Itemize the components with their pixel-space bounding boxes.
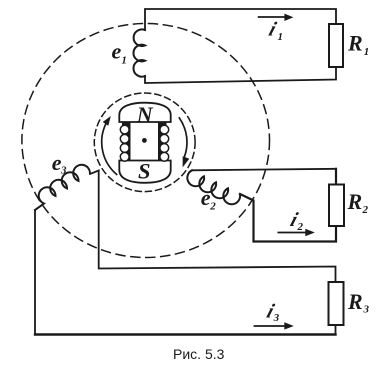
current arrow i3 [254, 325, 285, 327]
wire circuit-3 right vertical [90, 171, 336, 335]
rotation arc right [179, 118, 187, 157]
big dashed circle (stator flux path) [22, 24, 270, 258]
svg-text:N: N [136, 102, 154, 127]
svg-text:R: R [347, 289, 363, 314]
svg-text:1: 1 [278, 31, 284, 43]
svg-text:Рис. 5.3: Рис. 5.3 [173, 346, 225, 362]
rotation arrowhead left [103, 116, 111, 126]
magnet pole piece N (top cap) [119, 103, 170, 122]
svg-text:1: 1 [121, 54, 127, 66]
svg-text:R: R [347, 189, 363, 214]
small dashed circle (rotor boundary) [94, 93, 195, 192]
svg-text:3: 3 [273, 312, 280, 324]
rotor core bar right [158, 122, 167, 162]
magnet pole piece S (bottom cap) [119, 161, 170, 183]
resistor R2 [329, 185, 344, 227]
wire circuit-1 loop (top rectangle) [145, 9, 336, 83]
rotation arrowhead right [183, 156, 190, 167]
rotor core bar left [122, 122, 131, 162]
coil e2 [187, 170, 240, 204]
rotor axis dot [142, 138, 147, 143]
resistor R3 [329, 282, 344, 325]
current arrow i1 [259, 16, 287, 18]
rotor winding turns right [160, 125, 169, 161]
wire circuit-2 right/bottom/left [240, 169, 336, 242]
svg-text:3: 3 [363, 304, 370, 316]
svg-text:2: 2 [209, 201, 216, 213]
current arrow i2 [278, 232, 306, 234]
wire circuit-3 bottom [35, 333, 336, 335]
svg-text:S: S [138, 159, 151, 184]
rotor winding turns left [120, 125, 129, 161]
rotation arc left [102, 124, 117, 175]
resistor R1 [329, 24, 343, 67]
svg-text:2: 2 [362, 204, 369, 216]
svg-text:1: 1 [364, 46, 370, 58]
svg-text:2: 2 [297, 221, 304, 233]
svg-text:3: 3 [60, 165, 67, 177]
svg-text:e: e [112, 39, 122, 64]
wire circuit-2 top [192, 169, 336, 171]
svg-text:R: R [347, 31, 363, 56]
coil e3 [35, 165, 90, 210]
wire circuit-3 left vertical [34, 210, 36, 335]
coil e1 [133, 29, 145, 76]
